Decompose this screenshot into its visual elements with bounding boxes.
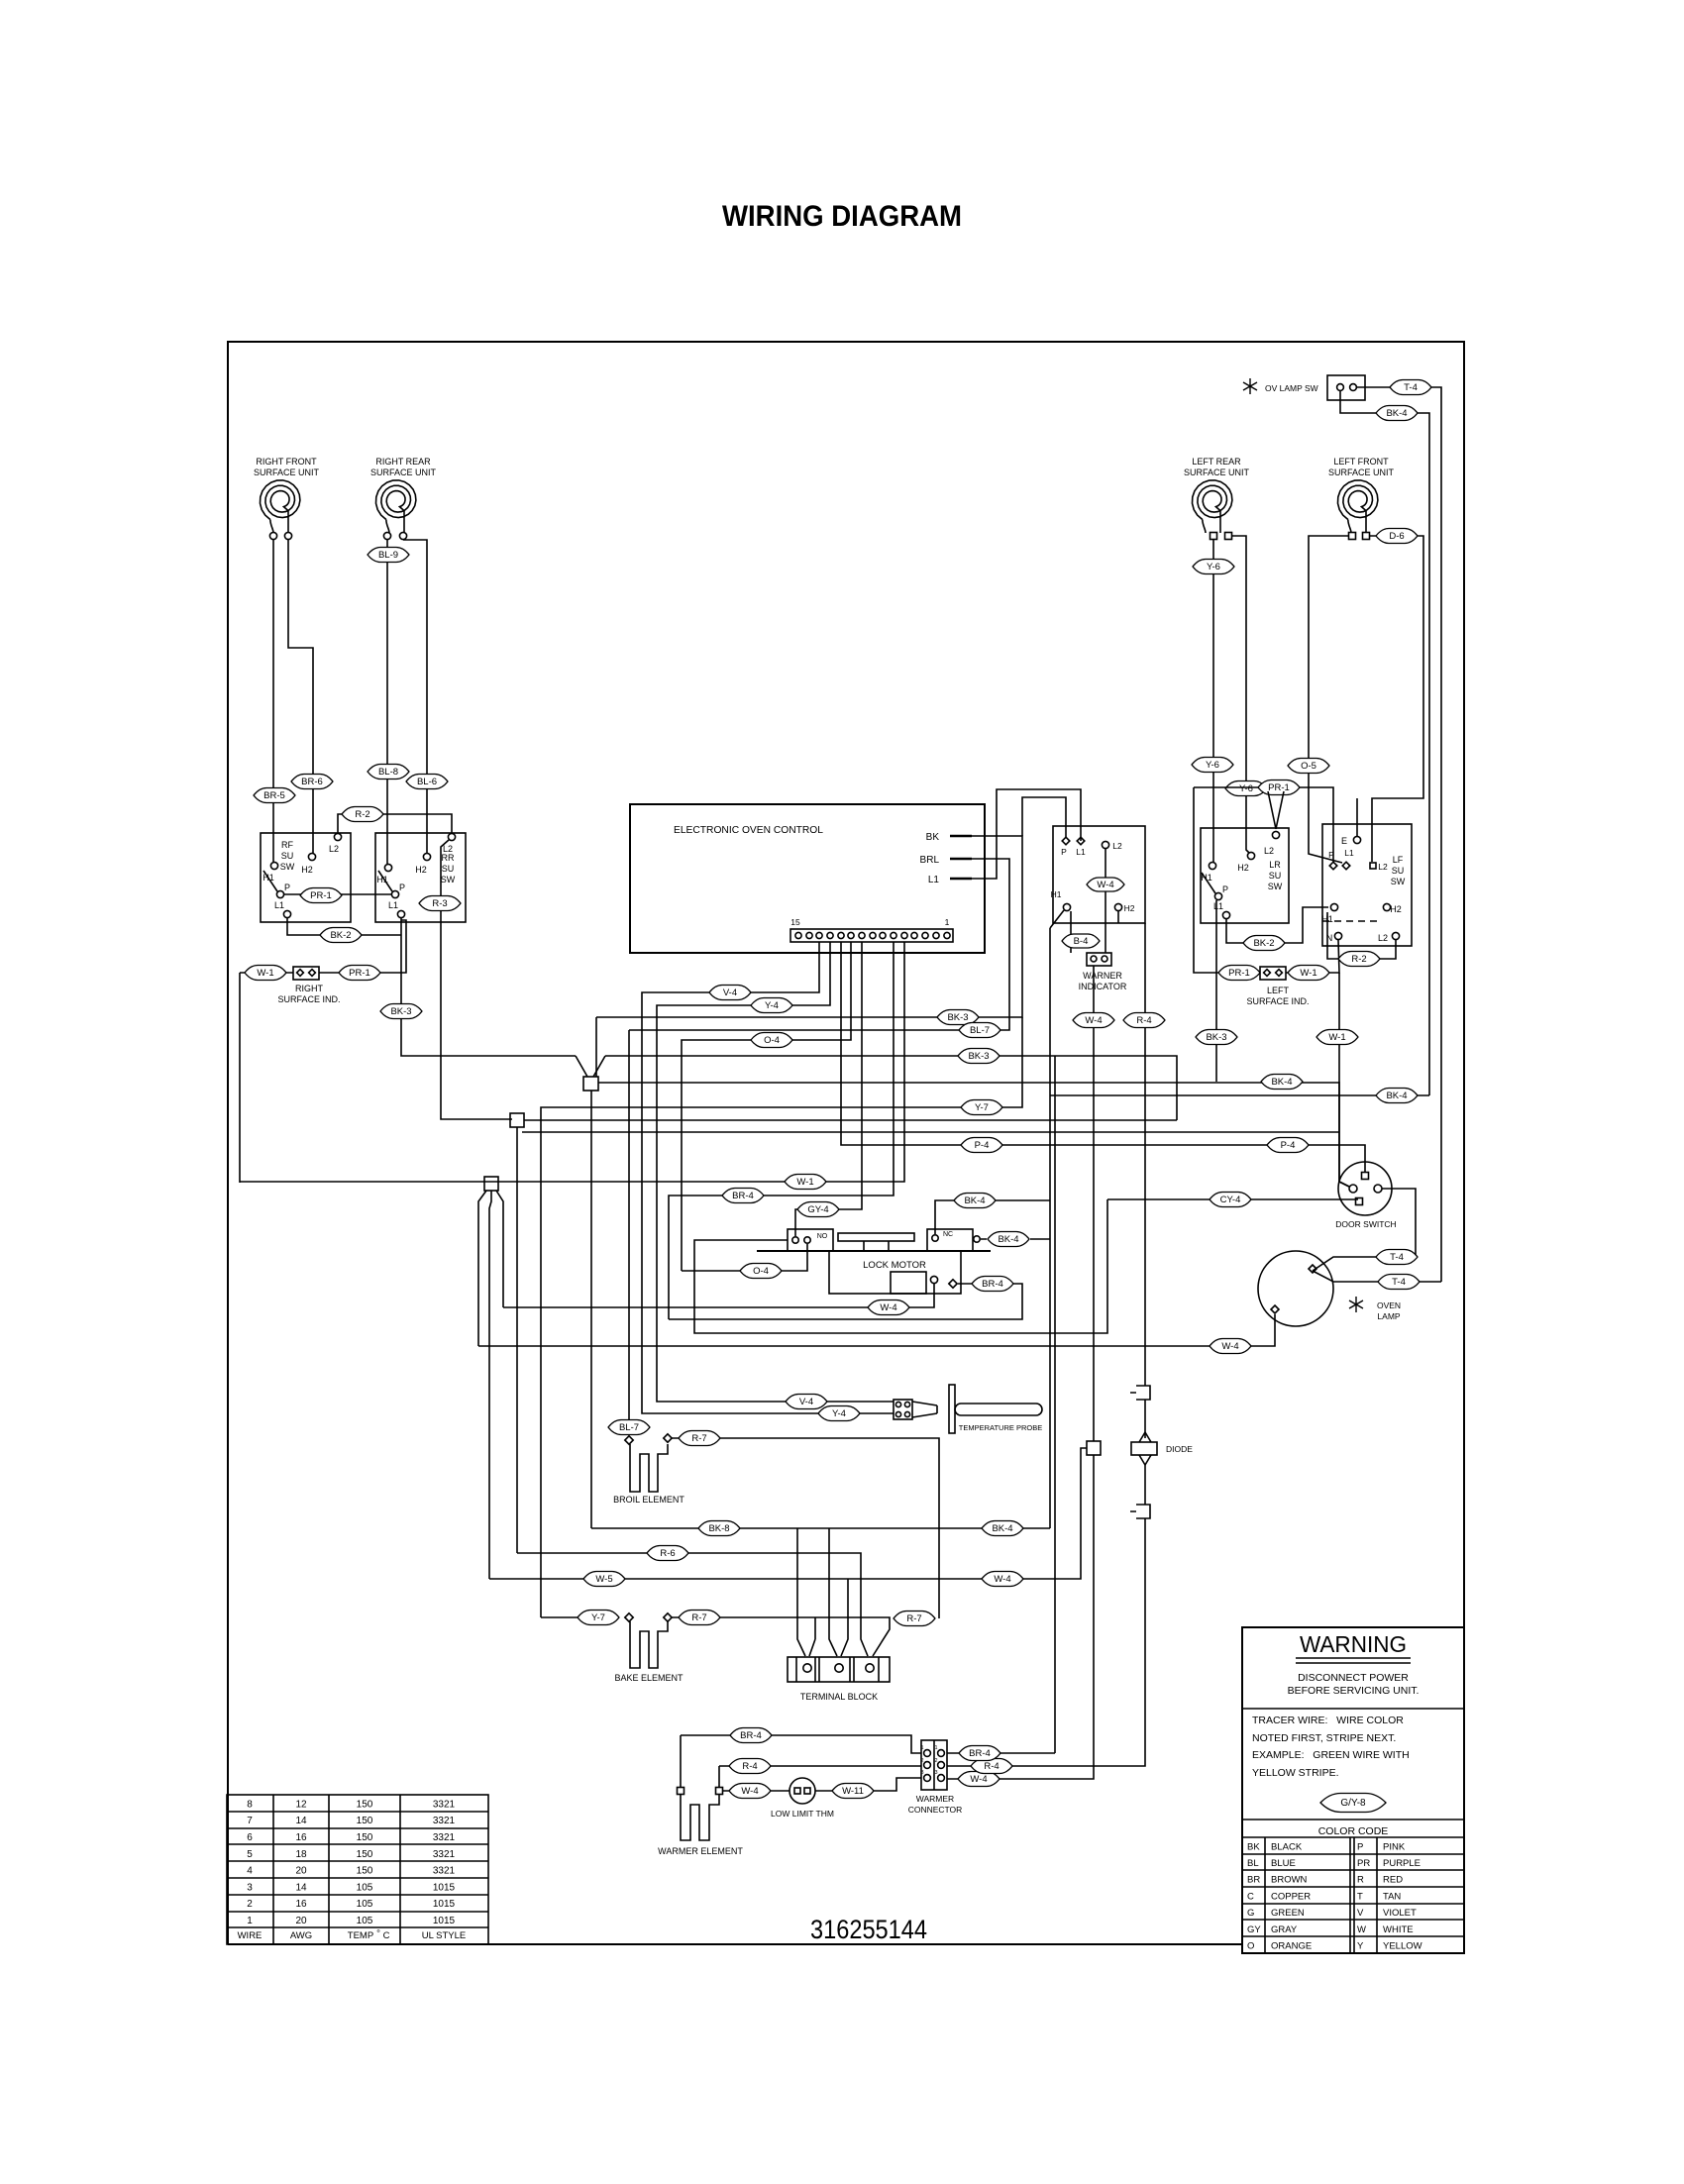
svg-text:E: E <box>1341 836 1347 846</box>
wire warner W-4 output <box>947 966 1094 1779</box>
lock NO switch box <box>788 1229 833 1251</box>
svg-text:O: O <box>1247 1941 1254 1952</box>
svg-text:W-4: W-4 <box>1085 1015 1102 1026</box>
svg-text:R-6: R-6 <box>660 1548 675 1559</box>
wire junction B down to R-6 <box>516 1127 518 1553</box>
wire Y-7 bus <box>541 1017 1022 1617</box>
svg-text:SURFACE IND.: SURFACE IND. <box>1246 996 1309 1006</box>
wire ov lamp sw BK-4 down <box>1340 391 1429 1095</box>
svg-text:o: o <box>376 1928 379 1934</box>
door switch top pin <box>1362 1173 1369 1180</box>
svg-text:P-4: P-4 <box>975 1140 990 1151</box>
svg-text:BK-2: BK-2 <box>1253 938 1274 949</box>
svg-text:105: 105 <box>357 1916 373 1926</box>
oval BK-4 f <box>982 1521 1023 1536</box>
wire RF left lead <box>272 540 274 862</box>
svg-text:YELLOW: YELLOW <box>1383 1941 1422 1952</box>
svg-text:Y-6: Y-6 <box>1239 783 1253 794</box>
LF dashed divider <box>1322 920 1378 922</box>
svg-text:WHITE: WHITE <box>1383 1924 1414 1935</box>
svg-text:PR-1: PR-1 <box>1268 782 1290 793</box>
svg-text:BR-4: BR-4 <box>740 1730 762 1741</box>
oven lamp circle <box>1258 1251 1333 1326</box>
oval Y-4 a <box>751 998 792 1013</box>
svg-text:316255144: 316255144 <box>810 1915 927 1944</box>
oven lamp terminals <box>1309 1265 1316 1273</box>
RF L2 terminal <box>334 833 341 840</box>
warner connector pins <box>924 1750 931 1757</box>
svg-text:BL: BL <box>1247 1858 1259 1869</box>
lock motor lower terminals <box>891 1272 926 1294</box>
RF coil terminals <box>269 532 276 539</box>
svg-text:W-4: W-4 <box>880 1302 896 1313</box>
svg-text:R-7: R-7 <box>906 1613 921 1624</box>
wire W-11 to connector <box>874 1778 921 1791</box>
oval Y-7 b <box>578 1611 619 1625</box>
oval O-4 b <box>740 1264 782 1279</box>
wire TB pin1 left arm <box>797 1528 805 1656</box>
oval O-4 a <box>751 1033 792 1048</box>
wire indicator to P <box>319 920 406 973</box>
RR L2 terminal <box>448 833 455 840</box>
svg-text:O-5: O-5 <box>1301 761 1316 772</box>
oval R-7 b <box>679 1611 720 1625</box>
svg-text:W-4: W-4 <box>1097 880 1113 890</box>
right rear surface unit coil <box>376 480 416 533</box>
LF L2 square terminal <box>1370 863 1376 869</box>
svg-text:R: R <box>1357 1875 1364 1886</box>
svg-text:L2: L2 <box>443 844 453 854</box>
oval BK-3 b <box>937 1010 979 1025</box>
svg-text:2: 2 <box>247 1899 253 1910</box>
svg-text:BEFORE SERVICING UNIT.: BEFORE SERVICING UNIT. <box>1288 1685 1420 1697</box>
svg-text:Y-4: Y-4 <box>832 1408 846 1419</box>
svg-text:TEMPERATURE PROBE: TEMPERATURE PROBE <box>959 1423 1042 1432</box>
svg-text:V: V <box>1357 1908 1364 1919</box>
svg-text:L1: L1 <box>1344 848 1354 858</box>
svg-text:5: 5 <box>247 1849 253 1860</box>
junction square D <box>1087 1441 1101 1455</box>
oval Y-6 b <box>1225 781 1267 796</box>
svg-text:LAMP: LAMP <box>1377 1311 1400 1321</box>
svg-text:3321: 3321 <box>433 1816 456 1826</box>
svg-text:H2: H2 <box>415 865 427 875</box>
warner P L1 terminals <box>1062 837 1070 845</box>
svg-text:BK-3: BK-3 <box>947 1012 968 1023</box>
svg-text:BK: BK <box>926 832 940 843</box>
wire warner L2 down <box>1105 849 1106 953</box>
svg-text:T-4: T-4 <box>1390 1252 1404 1263</box>
svg-text:BR-4: BR-4 <box>982 1279 1003 1290</box>
svg-text:PR-1: PR-1 <box>349 968 370 979</box>
wire LF right lead D-6 <box>1370 536 1423 862</box>
svg-text:BK-3: BK-3 <box>968 1051 989 1062</box>
wire RF right lead <box>288 540 313 853</box>
warmer terminals <box>678 1788 684 1795</box>
terminal block box <box>788 1657 890 1682</box>
svg-text:G/Y-8: G/Y-8 <box>1340 1798 1366 1809</box>
oval P-4 <box>961 1138 1002 1153</box>
wire BR-4 connector right <box>947 1752 1055 1754</box>
svg-text:SURFACE UNIT: SURFACE UNIT <box>1184 468 1250 477</box>
svg-text:NOTED FIRST, STRIPE NEXT.: NOTED FIRST, STRIPE NEXT. <box>1252 1732 1396 1744</box>
wire LR left lead <box>1212 540 1214 862</box>
svg-text:C: C <box>383 1930 390 1941</box>
wire RR L1 down bus <box>401 918 576 1056</box>
terminal block dividers <box>796 1657 879 1682</box>
strip pin circles <box>795 932 801 938</box>
oval BK-3 c <box>958 1049 1000 1064</box>
oval W-4 e <box>982 1572 1023 1587</box>
oval BR-4 b <box>972 1277 1013 1292</box>
svg-text:P: P <box>1328 850 1334 860</box>
wire W-4 lamp line <box>478 1314 1275 1346</box>
svg-text:L2: L2 <box>1378 933 1388 943</box>
svg-text:PR-1: PR-1 <box>310 890 332 901</box>
svg-text:COPPER: COPPER <box>1271 1891 1311 1902</box>
svg-text:P: P <box>1222 884 1228 894</box>
svg-text:W-1: W-1 <box>796 1177 813 1188</box>
svg-text:L2: L2 <box>1112 841 1122 851</box>
svg-text:W-5: W-5 <box>595 1574 612 1585</box>
wire bus BK-4 from junction A <box>598 1082 1339 1084</box>
svg-text:P: P <box>1357 1841 1363 1852</box>
svg-text:1015: 1015 <box>433 1882 456 1893</box>
wire TB pin1 arms <box>809 1617 815 1656</box>
svg-text:O-4: O-4 <box>753 1266 769 1277</box>
svg-text:OV LAMP SW: OV LAMP SW <box>1265 383 1318 393</box>
wire R-2 right <box>1327 912 1396 959</box>
oval V-4 b <box>786 1395 827 1409</box>
svg-text:LF: LF <box>1393 855 1404 865</box>
svg-text:LR: LR <box>1269 860 1281 870</box>
svg-text:2: 2 <box>920 1758 923 1764</box>
svg-text:150: 150 <box>357 1849 373 1860</box>
svg-text:RF: RF <box>281 840 293 850</box>
svg-text:20: 20 <box>295 1866 307 1877</box>
wire pin3 V-4 route <box>642 942 894 1413</box>
oval BL-6 <box>406 775 448 789</box>
svg-text:W-4: W-4 <box>1221 1341 1238 1352</box>
wire R-2 link L2-L2 <box>338 814 452 833</box>
svg-text:BK-8: BK-8 <box>708 1523 729 1534</box>
oval T-4 c <box>1378 1275 1420 1290</box>
svg-text:WARNING: WARNING <box>1300 1631 1407 1657</box>
svg-text:BR-6: BR-6 <box>301 777 323 787</box>
svg-text:16: 16 <box>295 1899 307 1910</box>
probe crossbar <box>949 1385 955 1433</box>
oval B-4 <box>1062 934 1100 948</box>
oval W-1 c <box>1288 966 1329 981</box>
svg-text:W-4: W-4 <box>970 1774 987 1785</box>
svg-text:C: C <box>1247 1891 1254 1902</box>
wire O-4 branch <box>682 1244 807 1271</box>
oval BK-4 lock <box>988 1232 1029 1247</box>
svg-text:LOCK MOTOR: LOCK MOTOR <box>863 1260 926 1271</box>
wire R-3 bus right <box>524 1119 1177 1121</box>
warner L2 terminal <box>1102 841 1108 848</box>
svg-text:H2: H2 <box>1390 904 1402 914</box>
svg-text:ELECTRONIC OVEN CONTROL: ELECTRONIC OVEN CONTROL <box>674 825 823 836</box>
svg-text:Y-7: Y-7 <box>975 1102 989 1113</box>
svg-text:W-4: W-4 <box>741 1786 758 1797</box>
wire R-7 bake line <box>672 1617 890 1656</box>
svg-text:3321: 3321 <box>433 1866 456 1877</box>
wire bus BK-3 horizontal right <box>605 1056 1177 1120</box>
oval BL-7 b <box>608 1420 650 1435</box>
svg-text:BK-3: BK-3 <box>1206 1032 1226 1043</box>
wire diode upper <box>1144 1400 1146 1438</box>
svg-text:Y: Y <box>1357 1941 1364 1952</box>
oval W-4 c <box>1073 1013 1114 1028</box>
lock NC switch box <box>927 1229 973 1251</box>
junction square A <box>583 1077 598 1091</box>
wire pin11 W-1 route <box>240 942 904 1182</box>
oval T-4 b <box>1376 1250 1418 1265</box>
warning and color code box <box>1242 1627 1464 1953</box>
svg-text:NC: NC <box>943 1231 953 1238</box>
svg-text:L2: L2 <box>329 844 339 854</box>
svg-text:Y-6: Y-6 <box>1206 760 1219 771</box>
LR H1 terminal <box>1209 862 1215 869</box>
RR P terminal <box>391 890 398 897</box>
probe cone <box>912 1402 937 1417</box>
right front surface unit coil <box>261 480 300 533</box>
oval R-7 a <box>679 1431 720 1446</box>
oval O-5 <box>1288 759 1329 774</box>
svg-text:V-4: V-4 <box>799 1397 813 1407</box>
asterisk oven lamp <box>1349 1297 1363 1312</box>
wire BL-7 drop to broil <box>628 1030 630 1435</box>
wire W-4 THM line <box>723 1790 833 1792</box>
connector bracket lower <box>1130 1505 1150 1518</box>
svg-text:T-4: T-4 <box>1392 1277 1406 1288</box>
svg-text:1: 1 <box>247 1916 253 1926</box>
svg-text:SW: SW <box>280 862 295 872</box>
RF L1 terminal <box>283 910 290 917</box>
svg-text:Y-7: Y-7 <box>591 1612 605 1623</box>
svg-text:1015: 1015 <box>433 1899 456 1910</box>
oval D-6 <box>1376 529 1418 544</box>
wire W-1 left segment <box>240 972 293 974</box>
svg-text:UL STYLE: UL STYLE <box>422 1930 467 1941</box>
warner lamp box <box>1087 953 1111 966</box>
svg-text:GRAY: GRAY <box>1271 1924 1298 1935</box>
wire lock motor W-4 line <box>503 1284 934 1307</box>
wire NC left up BK-4 <box>935 1200 1050 1234</box>
svg-text:L2: L2 <box>1264 846 1274 856</box>
RR L1 terminal <box>397 910 404 917</box>
oval BR-5 <box>254 788 295 803</box>
wire W-1 long vertical <box>239 973 241 1183</box>
drawing border frame <box>228 342 1464 1944</box>
svg-text:LEFT FRONT: LEFT FRONT <box>1333 457 1389 467</box>
svg-text:BLUE: BLUE <box>1271 1858 1296 1869</box>
svg-text:150: 150 <box>357 1799 373 1810</box>
svg-text:AWG: AWG <box>290 1930 312 1941</box>
wire TB pin2 arms <box>829 1528 848 1656</box>
LF E terminal <box>1353 836 1360 843</box>
svg-text:GY-4: GY-4 <box>807 1204 828 1215</box>
svg-text:SURFACE UNIT: SURFACE UNIT <box>370 468 437 477</box>
oval Y-6 a <box>1193 560 1234 574</box>
oval R-4 d <box>729 1759 771 1774</box>
svg-text:Y-4: Y-4 <box>765 1000 779 1011</box>
oval W-4 f <box>958 1772 1000 1787</box>
svg-text:B-4: B-4 <box>1074 936 1089 947</box>
svg-text:SU: SU <box>1392 866 1405 876</box>
svg-text:H2: H2 <box>301 865 313 875</box>
wire PR-1 P to P <box>284 893 391 895</box>
svg-text:BR-4: BR-4 <box>969 1748 991 1759</box>
wire CY-4 vertical <box>694 1199 1107 1333</box>
oval W-1 d <box>1316 1030 1358 1045</box>
wire R-7 broil line <box>672 1438 939 1618</box>
oval BK-4 b <box>1261 1075 1303 1090</box>
svg-text:T-4: T-4 <box>1404 382 1418 393</box>
oval BR-6 <box>291 775 333 789</box>
svg-text:SW: SW <box>1391 877 1406 886</box>
LR H2 terminal <box>1247 852 1254 859</box>
oval BK-4 c <box>954 1194 996 1208</box>
oval BK-3 a <box>380 1004 422 1019</box>
svg-text:GREEN: GREEN <box>1271 1908 1305 1919</box>
svg-text:BROWN: BROWN <box>1271 1875 1308 1886</box>
RR coil terminals <box>383 532 390 539</box>
svg-text:LOW LIMIT THM: LOW LIMIT THM <box>771 1809 834 1819</box>
wire junction A down to BK-8 <box>590 1091 592 1528</box>
svg-text:SURFACE IND.: SURFACE IND. <box>277 994 340 1004</box>
wire W-5 long line <box>489 1448 1087 1579</box>
svg-text:L1: L1 <box>388 900 398 910</box>
svg-text:W-4: W-4 <box>994 1574 1010 1585</box>
wire diode lower <box>1144 1465 1146 1505</box>
svg-text:BK-3: BK-3 <box>390 1006 411 1017</box>
svg-text:H2: H2 <box>1124 903 1135 913</box>
svg-text:RIGHT REAR: RIGHT REAR <box>375 457 431 467</box>
wire RR right lead <box>403 540 427 853</box>
svg-text:150: 150 <box>357 1866 373 1877</box>
wire bus 1065 vertical <box>1054 1056 1056 1753</box>
oven lamp switch box <box>1327 375 1365 400</box>
oval CY-4 <box>1210 1193 1251 1207</box>
svg-text:YELLOW STRIPE.: YELLOW STRIPE. <box>1252 1767 1339 1779</box>
svg-text:LEFT REAR: LEFT REAR <box>1192 457 1241 467</box>
svg-text:BLACK: BLACK <box>1271 1841 1303 1852</box>
lock motor plate <box>757 1250 991 1252</box>
RF H2 terminal <box>308 853 315 860</box>
RF H1 terminal <box>270 862 277 869</box>
svg-text:105: 105 <box>357 1882 373 1893</box>
svg-text:12: 12 <box>295 1799 307 1810</box>
oval PR-1 b <box>339 966 380 981</box>
junction square C on W line <box>484 1177 498 1191</box>
svg-text:L1: L1 <box>1213 901 1223 911</box>
wire LF left lead O-5 <box>1309 536 1348 863</box>
svg-text:W-11: W-11 <box>842 1786 864 1797</box>
svg-text:WIRE: WIRE <box>238 1930 263 1941</box>
wire BK-4 to door left contact <box>1339 1082 1349 1187</box>
svg-text:RIGHT: RIGHT <box>295 984 324 993</box>
svg-text:6: 6 <box>247 1832 253 1843</box>
warner H2 terminal <box>1114 903 1121 910</box>
svg-text:SU: SU <box>442 864 455 874</box>
svg-text:P: P <box>399 883 405 892</box>
broil element <box>630 1444 668 1492</box>
LR coil terminals <box>1210 533 1217 540</box>
svg-text:GY: GY <box>1247 1924 1261 1935</box>
svg-text:WIRING DIAGRAM: WIRING DIAGRAM <box>722 200 962 233</box>
svg-text:VIOLET: VIOLET <box>1383 1908 1417 1919</box>
svg-text:R-4: R-4 <box>742 1761 757 1772</box>
warner connector box <box>921 1740 947 1790</box>
wire CY-4 line to door switch <box>1107 1198 1358 1200</box>
svg-text:BL-8: BL-8 <box>378 767 398 778</box>
wire R-4 warmer line <box>719 1766 921 1787</box>
svg-text:D-6: D-6 <box>1389 531 1404 542</box>
wire RR left lead <box>386 540 388 864</box>
svg-text:DOOR SWITCH: DOOR SWITCH <box>1335 1219 1396 1229</box>
warner indicator box <box>1053 826 1145 923</box>
svg-text:L1: L1 <box>274 900 284 910</box>
oval GY-4 <box>797 1202 839 1217</box>
svg-text:INDICATOR: INDICATOR <box>1079 982 1127 991</box>
svg-text:BK-4: BK-4 <box>992 1523 1012 1534</box>
wire lamp to T-4 c <box>1313 1271 1441 1282</box>
svg-text:150: 150 <box>357 1816 373 1826</box>
wire warmer element <box>681 1795 719 1840</box>
svg-text:H1: H1 <box>1051 889 1062 899</box>
wire BK-2 RF L1 to RR <box>287 918 401 935</box>
oval R-4 c <box>971 1759 1012 1774</box>
svg-text:BL-9: BL-9 <box>378 550 398 561</box>
svg-text:PR-1: PR-1 <box>1228 968 1250 979</box>
svg-text:14: 14 <box>295 1882 307 1893</box>
svg-text:3321: 3321 <box>433 1832 456 1843</box>
wire gauge table <box>227 1795 488 1944</box>
svg-text:BRL: BRL <box>920 855 940 866</box>
wire W-1 long vertical right <box>1339 973 1349 1187</box>
svg-text:1: 1 <box>934 1745 937 1751</box>
svg-text:OVEN: OVEN <box>1377 1300 1401 1310</box>
svg-text:14: 14 <box>295 1816 307 1826</box>
svg-text:TRACER WIRE: WIRE COLOR: TRACER WIRE: WIRE COLOR <box>1252 1715 1404 1726</box>
svg-text:L1: L1 <box>1076 847 1086 857</box>
oval PR-1 d <box>1218 966 1260 981</box>
svg-text:W: W <box>1357 1924 1366 1935</box>
wire warner P stub <box>1022 797 1066 837</box>
oval BL-9 <box>368 548 409 563</box>
LF SU SW box <box>1322 824 1412 946</box>
svg-text:R-4: R-4 <box>1136 1015 1151 1026</box>
wire PR-1 bus top <box>1194 787 1333 862</box>
svg-text:SW: SW <box>441 875 456 884</box>
wire PR-1 vertical to indicator <box>1194 787 1260 973</box>
wire V arms into LR L2 <box>1268 791 1284 829</box>
oval R-7 c <box>894 1612 935 1626</box>
oval W-5 <box>583 1572 625 1587</box>
svg-text:R-7: R-7 <box>691 1433 706 1444</box>
svg-text:R-2: R-2 <box>355 809 369 820</box>
right surface indicator box <box>293 967 319 980</box>
LF P L1 terminals <box>1329 862 1337 870</box>
wire pin4 Y-4 route <box>657 942 894 1402</box>
svg-text:P: P <box>284 883 290 892</box>
svg-text:3321: 3321 <box>433 1849 456 1860</box>
wire BK-2 LR L1 to LF <box>1226 907 1328 943</box>
wire BRL pin route <box>629 859 1009 1030</box>
wire Y-7 bake line <box>541 1616 579 1618</box>
